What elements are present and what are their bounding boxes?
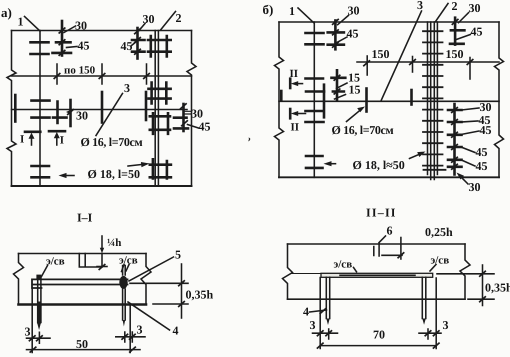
svg-text:0,35h: 0,35h: [485, 281, 510, 295]
svg-text:3: 3: [443, 318, 449, 332]
tie hash group low on rebar 2: [150, 113, 170, 134]
panel a top edge: [12, 30, 192, 32]
section mark I left: [25, 131, 40, 134]
bar end x335.4 top: [334, 21, 337, 50]
dim line 150: [357, 61, 499, 63]
dim tick x366 on 150 line: [366, 56, 368, 75]
bar at left edge panel b: [280, 91, 283, 101]
hanger rod 4 left: [38, 277, 41, 323]
left arrow bottom panel a: [63, 175, 74, 177]
block left edge II-II: [283, 244, 293, 299]
arrow phi18 to ladder: [410, 154, 421, 159]
bar end x137.5: [136, 28, 139, 59]
dim tick x412.5 on 150 line: [412, 57, 414, 73]
svg-text:1: 1: [18, 15, 24, 29]
bar x146: [145, 92, 148, 120]
panel a left edge with break symbols: [7, 31, 16, 187]
svg-text:Ø 16, l=70см: Ø 16, l=70см: [332, 123, 394, 137]
bar x70.5 with dim 30: [69, 100, 72, 126]
block bottom edge I-I: [19, 303, 147, 306]
svg-text:30: 30: [76, 109, 88, 123]
svg-text:а): а): [1, 5, 12, 20]
bar end x455 top right: [454, 18, 457, 45]
extension line left of plate: [291, 273, 321, 275]
svg-text:30: 30: [469, 1, 481, 15]
block top edge I-I: [19, 253, 147, 255]
svg-text:6: 6: [387, 224, 393, 238]
bar x411.5 at center line: [410, 90, 413, 105]
svg-text:45: 45: [121, 39, 133, 53]
svg-text:15: 15: [349, 83, 361, 97]
svg-text:э/св: э/св: [334, 259, 353, 271]
svg-text:I: I: [20, 134, 24, 146]
section mark I right: [49, 130, 65, 133]
svg-text:3: 3: [417, 0, 423, 12]
svg-text:I–I: I–I: [77, 211, 93, 225]
svg-text:3: 3: [25, 325, 31, 339]
bottom dim 3 left I-I: [27, 337, 51, 339]
bar x102: [101, 92, 104, 123]
section mark II top: [289, 79, 292, 88]
ties on rebar 1: [31, 42, 50, 177]
svg-text:II–II: II–II: [366, 206, 397, 220]
anchor rod 5 with weld washer: [123, 266, 126, 276]
svg-text:3: 3: [124, 81, 130, 95]
bar x454.5 lower right with ties: [453, 104, 456, 175]
dim group right 30/45: [182, 104, 185, 131]
arrow phi16 to center line: [347, 110, 361, 121]
svg-text:45: 45: [476, 159, 488, 173]
svg-text:Ø 18, l≈50: Ø 18, l≈50: [353, 158, 405, 172]
svg-text:I: I: [60, 135, 64, 147]
svg-text:0,25h: 0,25h: [425, 225, 453, 239]
svg-text:45: 45: [471, 25, 483, 39]
bar end x62: [61, 21, 64, 56]
svg-text:II: II: [290, 68, 299, 80]
svg-text:0,35h: 0,35h: [186, 288, 214, 302]
rebar 2 double vertical: [155, 31, 158, 187]
embedded plate II-II: [321, 273, 433, 277]
svg-text:30: 30: [191, 107, 203, 121]
welded mesh ladder: [428, 22, 438, 180]
tie hash group bottom on rebar 2: [150, 159, 171, 178]
po150 dim ticks: [57, 64, 147, 84]
panel b right edge with breaks: [495, 22, 504, 177]
svg-text:э/св: э/св: [431, 255, 450, 267]
svg-text:3: 3: [137, 323, 143, 337]
svg-text:4: 4: [173, 324, 179, 338]
svg-text:1: 1: [289, 4, 295, 18]
svg-text:50: 50: [76, 337, 88, 351]
bar x337 with 15/15 ticks: [336, 70, 339, 100]
svg-text:Ø 18, l=50: Ø 18, l=50: [88, 167, 141, 181]
svg-text:э/св: э/св: [46, 256, 65, 268]
svg-text:по 150: по 150: [64, 65, 96, 77]
ties on rebar 1 panel b: [306, 33, 325, 168]
bottom dim 50 I-I: [27, 349, 141, 351]
block right edge II-II: [460, 244, 470, 299]
svg-text:3: 3: [310, 318, 316, 332]
dim 0,35h I-I: [181, 264, 183, 318]
svg-text:4: 4: [303, 305, 309, 319]
bar at left edge x15.3: [14, 95, 17, 122]
tie hash group mid on rebar 2: [149, 83, 171, 104]
section mark II bottom: [289, 109, 292, 118]
svg-text:45: 45: [78, 39, 90, 53]
svg-text:150: 150: [372, 47, 390, 61]
panel a right edge with break symbol: [187, 31, 196, 187]
hanger rod right II-II: [422, 277, 426, 318]
svg-text:б): б): [263, 2, 274, 17]
hanger rod left II-II: [326, 277, 329, 318]
block left edge I-I: [14, 254, 24, 305]
embedded plate bar I-I: [32, 279, 128, 288]
panel a bottom edge: [12, 185, 192, 187]
scan speck: [248, 138, 250, 142]
grid line po150: [12, 75, 192, 77]
block top edge II-II: [288, 243, 466, 245]
panel b left edge with breaks: [275, 22, 284, 177]
dim tick x470 on 150 line: [469, 58, 471, 80]
rebar 1 vertical: [39, 31, 41, 187]
block bottom edge II-II: [288, 298, 466, 300]
quarter-h dimension: [101, 236, 103, 248]
bar x364.5 at center line: [365, 89, 368, 112]
svg-text:45: 45: [476, 145, 488, 159]
dim 0,35h II-II: [482, 265, 484, 306]
svg-text:2: 2: [452, 0, 458, 13]
ladder rungs: [423, 31, 446, 170]
axis bar 3 (center line): [12, 109, 188, 111]
panel b top edge: [279, 21, 499, 23]
T bar x57.5: [53, 102, 67, 124]
svg-text:¼h: ¼h: [107, 237, 121, 249]
svg-text:30: 30: [480, 100, 492, 114]
left arrow near bottom panel b: [328, 163, 336, 165]
center line panel b: [279, 100, 499, 102]
panel b bottom edge: [279, 176, 499, 178]
tie hash group top on rebar 2: [148, 36, 171, 57]
svg-text:30: 30: [469, 180, 481, 194]
svg-text:2: 2: [176, 11, 182, 25]
svg-text:Ø 16, l=70см: Ø 16, l=70см: [81, 135, 143, 149]
bottom dim 3 right I-I: [116, 336, 145, 338]
svg-text:45: 45: [199, 120, 211, 134]
svg-text:II: II: [291, 122, 300, 134]
notch in top edge: [79, 254, 102, 268]
svg-text:70: 70: [373, 328, 385, 342]
svg-text:5: 5: [175, 248, 181, 262]
svg-text:45: 45: [347, 27, 359, 41]
svg-text:150: 150: [446, 47, 464, 61]
bar x324: [323, 85, 326, 118]
svg-text:45: 45: [480, 123, 492, 137]
svg-text:30: 30: [75, 19, 87, 33]
block right edge I-I: [141, 254, 151, 305]
rebar 1 panel b: [313, 22, 315, 177]
arrow to bottom hash: [128, 164, 143, 166]
